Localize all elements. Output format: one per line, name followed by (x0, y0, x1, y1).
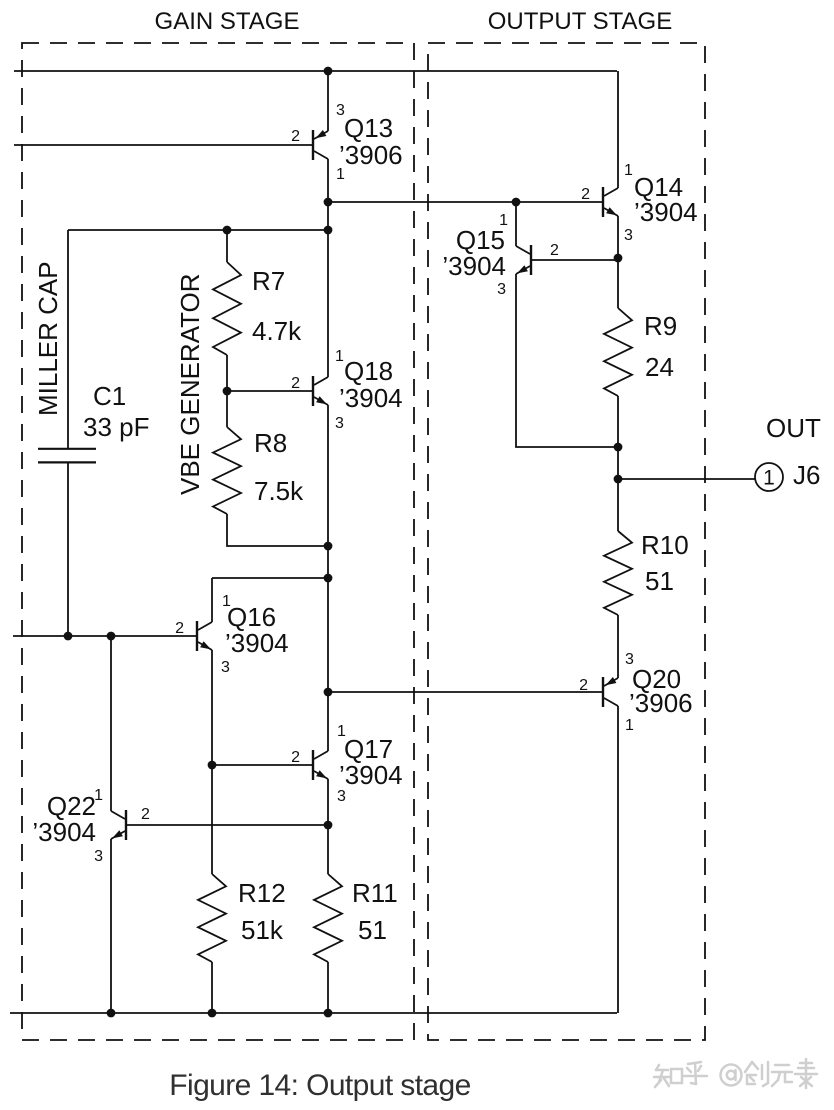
wire C1 top to R7 top to x328 horizontal (68, 229, 328, 231)
svg-text:3: 3 (337, 788, 346, 805)
svg-text:J6: J6 (793, 460, 820, 490)
wire Q17 base horizontal (212, 764, 312, 766)
node junction dot gain to output drive node (324, 688, 333, 697)
wire R9 bottom lead (617, 396, 619, 447)
svg-text:OUT: OUT (766, 413, 821, 443)
node junction dot Q16 collector tap (324, 574, 333, 583)
wire Q14 emitter vertical (617, 216, 619, 258)
wire R12 bottom lead (211, 962, 213, 1013)
wire R11 bottom lead (327, 962, 329, 1013)
wire Q15 emitter vertical and corner to x618 (516, 274, 618, 447)
wire OUT node to connector J6 (618, 478, 755, 480)
svg-text:3: 3 (624, 227, 633, 244)
transistor Q20 PNP (602, 677, 604, 707)
svg-text:Q18: Q18 (344, 356, 393, 386)
wire Q15 base horizontal to Q14 emitter node (532, 259, 618, 261)
svg-text:’3904: ’3904 (339, 760, 403, 790)
svg-text:2: 2 (141, 806, 150, 823)
transistor Q18 NPN (312, 376, 314, 406)
capacitor C1 bottom plate (38, 461, 96, 463)
resistor R10 (604, 531, 632, 615)
svg-text:’3904: ’3904 (225, 628, 289, 658)
wire R12 top lead (211, 765, 213, 874)
wire Q16 base lead from left edge (13, 635, 196, 637)
svg-text:3: 3 (94, 848, 103, 865)
resistor R7 (213, 262, 241, 355)
svg-text:VBE GENERATOR: VBE GENERATOR (175, 273, 205, 495)
svg-text:’3904: ’3904 (339, 383, 403, 413)
wire Q17 collector vertical (327, 692, 329, 751)
wire Q16 collector horizontal (212, 577, 328, 579)
wire Q13 emitter vertical to top rail (327, 71, 329, 131)
wire Q13 collector to Q14 base horizontal (328, 201, 602, 203)
resistor R9 (604, 308, 632, 396)
svg-text:7.5k: 7.5k (254, 476, 304, 506)
svg-text:2: 2 (579, 677, 588, 694)
wire C1 bottom lead vertical (67, 463, 69, 636)
svg-text:’3904: ’3904 (442, 251, 506, 281)
svg-text:1: 1 (763, 467, 775, 490)
wire R9 top lead (617, 258, 619, 308)
node junction dot Q17 emitter R11 Q22 base node (324, 821, 333, 830)
svg-text:GAIN STAGE: GAIN STAGE (155, 8, 300, 35)
wire Q13 collector vertical down (327, 159, 329, 202)
wire R7 bottom lead to base node (226, 355, 228, 391)
wire top supply rail (14, 70, 617, 72)
svg-text:2: 2 (291, 375, 300, 392)
svg-text:’3906: ’3906 (629, 688, 693, 718)
node junction dot bottom rail Q22 (107, 1009, 116, 1018)
svg-text:1: 1 (625, 717, 634, 734)
wire Q14 collector vertical to top rail (617, 71, 619, 188)
transistor Q22 NPN mirrored (125, 810, 127, 840)
wire vertical x328 between collector node and miller node (327, 202, 329, 230)
svg-text:3: 3 (221, 659, 230, 676)
svg-text:OUTPUT STAGE: OUTPUT STAGE (488, 8, 672, 35)
node junction dot Q15 collector tap (512, 198, 521, 207)
node junction dot OUT node (614, 475, 623, 484)
wire Q22 base horizontal to Q17 emitter node (127, 824, 328, 826)
node junction dot C1 bottom node (64, 632, 73, 641)
wire R10 bottom lead to Q20 emitter (617, 615, 619, 678)
capacitor C1 top plate (38, 448, 96, 450)
svg-text:2: 2 (291, 749, 300, 766)
wire Q22 collector vertical (110, 636, 112, 811)
svg-text:51k: 51k (241, 915, 284, 945)
svg-text:’3904: ’3904 (634, 197, 698, 227)
node junction dot Q16 emitter Q17 base node (208, 761, 217, 770)
output stage dashed boundary box (428, 43, 705, 1040)
wire R8 top lead (226, 391, 228, 427)
svg-text:3: 3 (335, 415, 344, 432)
wire Q18 emitter vertical (327, 405, 329, 546)
svg-text:2: 2 (581, 186, 590, 203)
svg-text:Figure 14: Output stage: Figure 14: Output stage (169, 1069, 470, 1102)
node junction dot top rail at Q13 emitter (324, 67, 333, 76)
wire R8 bottom lead and corner to x328 (227, 514, 328, 546)
wire Q18 collector vertical (327, 230, 329, 377)
gain stage dashed boundary box (22, 43, 414, 1040)
wire Q18 base horizontal (227, 390, 312, 392)
svg-text:2: 2 (550, 242, 559, 259)
svg-text:MILLER CAP: MILLER CAP (33, 261, 63, 416)
node junction dot miller cap top node (324, 226, 333, 235)
svg-text:R10: R10 (641, 530, 689, 560)
svg-text:R7: R7 (252, 266, 285, 296)
node junction dot bottom rail R12 (208, 1009, 217, 1018)
transistor Q15 NPN mirrored (530, 245, 532, 275)
wire drive node to Q20 base horizontal (328, 691, 602, 693)
svg-text:33 pF: 33 pF (83, 412, 150, 442)
wire Q16 collector vertical (211, 578, 213, 622)
watermark zhihu chuangyuansu (656, 1065, 659, 1070)
svg-text:R9: R9 (644, 311, 677, 341)
svg-text:2: 2 (291, 128, 300, 145)
wire Q13 base lead from left edge (14, 144, 312, 146)
wire R7 top lead (226, 230, 228, 262)
wire Q20 collector vertical to bottom rail (617, 706, 619, 1013)
svg-text:1: 1 (335, 348, 344, 365)
wire vertical x328 between 546 and 692 (327, 546, 329, 692)
transistor Q17 NPN (312, 750, 314, 780)
resistor R12 (198, 874, 226, 962)
svg-text:51: 51 (645, 566, 674, 596)
svg-text:3: 3 (497, 281, 506, 298)
resistor R8 (213, 427, 241, 514)
wire bottom supply rail (10, 1012, 617, 1014)
connector J6 pin circle (755, 463, 783, 491)
wire Q16 emitter vertical (211, 650, 213, 765)
svg-text:’3904: ’3904 (32, 817, 96, 847)
wire R10 top lead (617, 479, 619, 531)
node junction dot R9 bottom Q15 emitter node (614, 443, 623, 452)
svg-text:51: 51 (358, 915, 387, 945)
svg-text:2: 2 (175, 620, 184, 637)
svg-text:C1: C1 (93, 381, 126, 411)
wire R11 top lead (327, 825, 329, 874)
node junction dot R8 bottom at Q18 emitter (324, 542, 333, 551)
svg-text:1: 1 (624, 162, 633, 179)
svg-text:4.7k: 4.7k (252, 316, 302, 346)
transistor Q16 NPN (196, 621, 198, 651)
node junction dot bottom rail R11 (324, 1009, 333, 1018)
transistor Q13 PNP (312, 130, 314, 160)
node junction dot Q14 emitter Q15 base node (614, 254, 623, 263)
wire vertical between R9 node and OUT node (617, 447, 619, 479)
node junction dot R7 R8 Q18 base node (223, 387, 232, 396)
transistor Q14 NPN (602, 187, 604, 217)
svg-text:’3906: ’3906 (339, 140, 403, 170)
wire Q15 collector vertical (515, 202, 517, 246)
node junction dot Q13 collector node (324, 198, 333, 207)
svg-text:24: 24 (645, 352, 674, 382)
wire C1 top lead vertical (67, 230, 69, 448)
node junction dot Q22 collector tap (107, 632, 116, 641)
resistor R11 (314, 874, 342, 962)
svg-text:Q13: Q13 (344, 113, 393, 143)
node junction dot R7 top (223, 226, 232, 235)
svg-text:R11: R11 (352, 878, 398, 908)
wire Q17 emitter vertical (327, 779, 329, 825)
wire Q22 emitter vertical (110, 839, 112, 1013)
svg-text:R8: R8 (254, 428, 287, 458)
svg-text:R12: R12 (238, 878, 286, 908)
